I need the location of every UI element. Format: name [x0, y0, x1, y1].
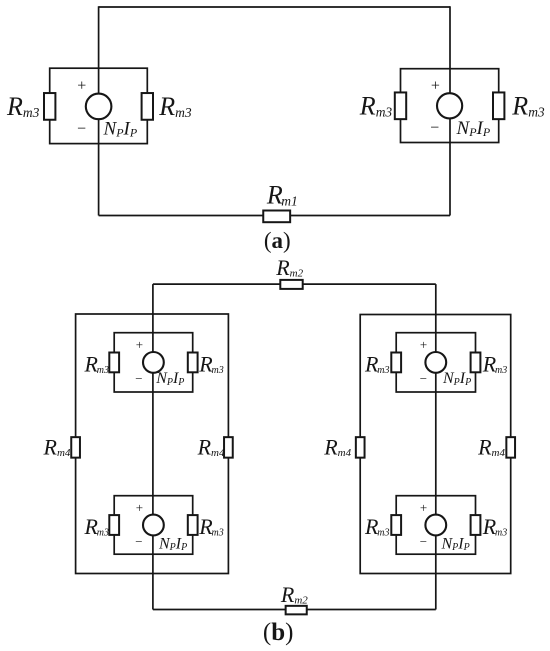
current source NpIp (a-left cell): [77, 77, 138, 139]
resistor Rm3 (b-right-top, right): [471, 353, 481, 373]
resistor Rm2 (top link): [280, 280, 302, 289]
resistor Rm3 (a-left cell, left): [44, 93, 55, 120]
resistor Rm3 (a-right cell, right): [493, 92, 504, 119]
current source NpIp (b-right-bottom): [420, 500, 470, 553]
resistor Rm3 (b-left-top, left): [109, 353, 119, 373]
wire loop: (b) right block outer box: [360, 315, 511, 574]
wire loop: b-left-bottom cell box: [114, 496, 193, 555]
svg-text:+: +: [136, 337, 143, 352]
svg-text:(a): (a): [264, 228, 291, 253]
svg-text:−: −: [77, 121, 86, 138]
resistor Rm4 (b-right block, right): [506, 437, 515, 458]
resistor Rm3 (b-right-bottom, left): [391, 515, 401, 535]
wire: (b) bottom horizontal: [153, 609, 436, 611]
wire: (a) bottom horizontal: [99, 215, 450, 217]
svg-text:−: −: [420, 534, 427, 549]
resistor Rm3 (b-left-top, right): [188, 353, 198, 373]
resistor Rm3 (b-right-bottom, right): [471, 515, 481, 535]
wire: (b) left-block vertical: [152, 284, 154, 609]
wire: (b) right-block vertical: [435, 284, 437, 609]
resistor Rm2 (bottom link): [286, 606, 307, 615]
svg-text:−: −: [420, 371, 427, 386]
resistor Rm3 (a-left cell, right): [142, 93, 153, 120]
wire loop: (a) left cell box: [50, 68, 148, 143]
wire: (a) right vertical: [449, 6, 451, 215]
svg-text:+: +: [420, 500, 427, 515]
resistor Rm3 (b-right-top, left): [391, 353, 401, 373]
resistor Rm3 (b-left-bottom, right): [188, 515, 198, 535]
resistor Rm4 (b-left block, left): [71, 437, 80, 458]
svg-text:(b): (b): [263, 619, 294, 646]
resistor Rm4 (b-right block, left): [356, 437, 365, 458]
wire loop: b-right-top cell box: [396, 333, 475, 392]
current source NpIp (a-right cell): [430, 78, 491, 140]
wire: (a) top horizontal: [99, 6, 450, 8]
wire: (a) left vertical: [98, 6, 100, 215]
wire loop: (a) right cell box: [401, 69, 499, 143]
svg-text:+: +: [77, 77, 86, 94]
wire: (b) top horizontal: [153, 283, 436, 285]
svg-text:−: −: [135, 534, 142, 549]
svg-text:+: +: [431, 78, 440, 95]
svg-text:−: −: [430, 120, 439, 137]
current source NpIp (b-left-top): [135, 337, 184, 388]
current source NpIp (b-left-bottom): [135, 500, 187, 553]
resistor Rm3 (a-right cell, left): [395, 92, 406, 119]
wire loop: (b) left block outer box: [76, 314, 229, 574]
resistor Rm4 (b-left block, right): [224, 437, 233, 458]
resistor Rm1: [263, 211, 290, 223]
wire loop: b-left-top cell box: [114, 333, 193, 392]
svg-text:−: −: [135, 371, 142, 386]
svg-text:+: +: [136, 500, 143, 515]
wire loop: b-right-bottom cell box: [396, 496, 475, 555]
current source NpIp (b-right-top): [420, 337, 471, 388]
svg-text:+: +: [420, 337, 427, 352]
resistor Rm3 (b-left-bottom, left): [109, 515, 119, 535]
